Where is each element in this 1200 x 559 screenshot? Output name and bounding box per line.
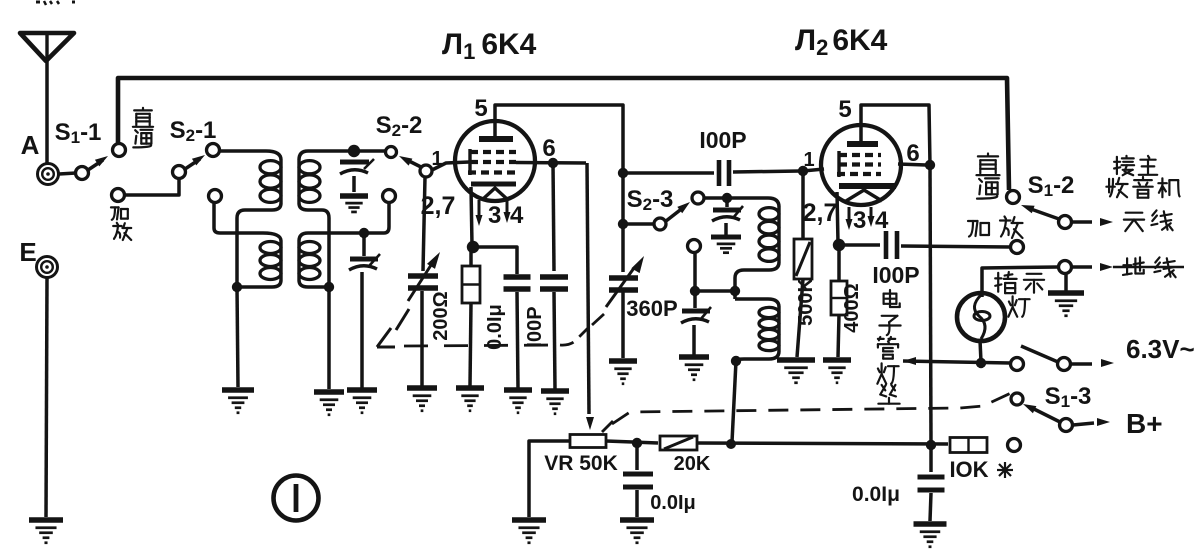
trimmer capacitor C2 — [349, 233, 380, 388]
svg-text:200Ω: 200Ω — [430, 291, 452, 340]
switch S2-1 — [173, 144, 220, 179]
figure number 1 — [274, 476, 319, 521]
label C5 100P — [524, 306, 546, 347]
terminal T2 secondary — [383, 190, 396, 203]
svg-text:0.0Iμ: 0.0Iμ — [484, 304, 506, 350]
ground C9 — [609, 361, 637, 384]
terminal T1 secondary top — [209, 190, 222, 203]
svg-text:S2-1: S2-1 — [170, 117, 217, 145]
capacitor C10 100P series — [839, 231, 1010, 259]
svg-text:3: 3 — [488, 202, 501, 229]
resistor R1 200ohm — [462, 247, 480, 386]
tube V2 pins 3 4 arrows — [846, 207, 875, 230]
wire padder terminal down — [693, 253, 697, 289]
wire T1 primary down — [235, 218, 239, 284]
switch S1-3 — [1011, 393, 1073, 432]
label S2-1 — [170, 117, 217, 145]
node T1 ground junction — [232, 282, 242, 292]
wire pin6 node to C5 — [553, 163, 554, 271]
tube V2 envelope — [821, 125, 901, 205]
tube V1 heater — [483, 188, 507, 199]
wire VR right — [606, 441, 658, 443]
svg-text:A: A — [21, 130, 40, 160]
label C4 0.01u — [484, 304, 506, 350]
svg-text:IOK: IOK — [949, 457, 988, 482]
label R2 500K — [795, 278, 817, 326]
label pin 6 of V2 — [906, 140, 919, 167]
capacitor C6 100P series — [623, 160, 800, 186]
tube V1 pins 3 4 arrows — [476, 200, 511, 226]
svg-text:5: 5 — [838, 96, 851, 123]
wire B+ arrow — [1073, 418, 1110, 426]
terminal A — [38, 164, 59, 185]
wire 6.3V arrow — [1071, 359, 1114, 367]
transformer T1 secondary — [241, 233, 281, 287]
svg-text:S1-2: S1-2 — [1028, 172, 1075, 200]
ground VR — [512, 520, 546, 543]
label tube V1 — [442, 28, 537, 64]
label S1-3 — [1045, 383, 1092, 411]
svg-text:3: 3 — [853, 207, 866, 234]
terminal jiafang left — [112, 189, 125, 202]
svg-text:I00P: I00P — [524, 306, 546, 347]
label shouyinji — [1106, 177, 1179, 198]
node T2 ground junction — [324, 282, 334, 292]
resistor R4 20K — [660, 436, 697, 450]
gang line switch — [612, 393, 1011, 424]
label zhitong left — [133, 108, 153, 147]
wire jiafang to S2-1 — [125, 179, 179, 195]
ground trimmer C7 — [711, 237, 741, 253]
terminal jiafang right — [1011, 241, 1024, 254]
wire T2 to ground — [327, 287, 331, 389]
ground R3 — [823, 360, 851, 383]
label A — [21, 130, 40, 160]
label pin 6 of V1 — [542, 135, 555, 162]
trimmer capacitor C1 — [340, 159, 374, 192]
transformer T3 secondary — [735, 299, 779, 361]
tube V2 heater — [846, 190, 882, 201]
trimmer capacitor C7 — [712, 198, 743, 235]
variable capacitor C9 360P — [606, 226, 644, 307]
ground C4 — [504, 390, 532, 413]
scan specks — [36, 1, 75, 5]
svg-text:0.0Iμ: 0.0Iμ — [852, 483, 900, 506]
wire V2 cathode down — [837, 192, 838, 243]
capacitor C11 0.01u — [623, 443, 653, 517]
label S2-2 — [376, 112, 423, 140]
svg-text:5: 5 — [474, 95, 487, 122]
node T3 bottom junction — [731, 356, 741, 366]
tube V2 plate — [847, 141, 878, 147]
lamp DS1 — [957, 293, 1005, 341]
svg-text:360P: 360P — [626, 296, 677, 321]
node V2 pin6 — [925, 160, 935, 170]
potentiometer VR 50K — [570, 435, 606, 448]
transformer T3 primary — [735, 198, 779, 278]
resistor R3 400ohm — [831, 245, 847, 357]
node lamp junction — [976, 358, 986, 368]
node 10K in — [926, 440, 936, 450]
svg-text:2,7: 2,7 — [421, 192, 456, 220]
label asterisk — [997, 462, 1013, 478]
wire filament 6.3V — [903, 357, 1010, 365]
svg-text:6.3V~: 6.3V~ — [1126, 334, 1195, 364]
label tube V2 — [795, 24, 888, 60]
wire antenna to A — [45, 61, 49, 163]
svg-text:2,7: 2,7 — [803, 199, 838, 227]
label zhitong right — [977, 154, 1000, 199]
wire T3 mid — [733, 278, 737, 299]
node plate V1 junction — [618, 168, 628, 178]
ground trimmer C1 — [340, 196, 368, 212]
wire T2 primary down — [327, 218, 331, 284]
svg-text:500K: 500K — [795, 278, 817, 326]
label dianziguan dengsi — [877, 290, 900, 404]
node T3 feed — [726, 439, 736, 449]
ground C11 — [620, 520, 654, 543]
wire padder node to T3 — [695, 289, 731, 293]
node trimmer C7 tap — [722, 193, 732, 203]
label pins 2,7 of V2 — [803, 199, 838, 227]
label pin 1 of V1 — [431, 148, 442, 170]
wire to V2 grid — [803, 169, 824, 171]
ground R1 — [456, 388, 484, 411]
transformer T2 primary — [299, 151, 329, 218]
wire V1 plate to node — [495, 105, 623, 171]
svg-text:I00P: I00P — [699, 127, 746, 153]
wire pin6 down to VR wiper — [586, 163, 594, 430]
label C12 0.01u — [852, 483, 900, 506]
wire T1 secondary top — [214, 203, 263, 233]
antenna — [20, 33, 74, 61]
svg-text:B+: B+ — [1126, 408, 1163, 439]
svg-text:S1-3: S1-3 — [1045, 383, 1092, 411]
transformer T2 secondary — [299, 233, 325, 287]
terminal E — [37, 257, 58, 278]
svg-text:S2-2: S2-2 — [376, 112, 423, 140]
tube V1 cathode — [471, 182, 516, 187]
wire V2 plate to bus — [861, 105, 930, 165]
node padder junction — [690, 286, 700, 296]
ground E — [29, 520, 63, 543]
node V1 cathode — [467, 241, 479, 253]
label B+ — [1126, 408, 1163, 439]
label jiafang left — [111, 207, 131, 240]
svg-text:1: 1 — [803, 149, 814, 171]
wire T3 bottom down — [732, 361, 736, 442]
label pin 1 of V2 — [803, 149, 814, 171]
wire dixian — [982, 267, 1058, 297]
svg-text:1: 1 — [431, 148, 442, 170]
svg-text:4: 4 — [510, 202, 524, 229]
label C9 360P — [626, 296, 677, 321]
wire node down to S2-3 — [621, 173, 625, 222]
gang line tuning — [377, 309, 604, 347]
svg-text:E: E — [19, 237, 36, 267]
switch S1-2 — [1007, 191, 1072, 229]
wire top bus — [118, 78, 1009, 190]
label pins 3 4 of V1 — [488, 202, 524, 229]
node V1 pin6 — [548, 158, 558, 168]
wire S2-2 to tube V1 grid — [432, 162, 469, 170]
label R4 20K — [674, 453, 711, 475]
switch S2-3 — [623, 192, 704, 230]
svg-text:S2-3: S2-3 — [627, 186, 674, 214]
svg-text:Л26K4: Л26K4 — [795, 24, 888, 60]
node V2 grid junction — [798, 166, 808, 176]
label C11 0.01u — [650, 492, 696, 514]
transformer T1 primary — [237, 151, 281, 218]
wire T2 secondary to terminal — [308, 203, 389, 233]
label S1-1 — [55, 119, 102, 147]
switch S1-1 — [76, 144, 126, 180]
label R3 400ohm — [841, 283, 863, 332]
ground dixian — [1048, 293, 1084, 316]
wire E down — [46, 278, 47, 517]
node trimmer C1 tap — [348, 145, 360, 157]
label S2-3 — [627, 186, 674, 214]
tube V2 grids — [837, 151, 881, 177]
ground T1 — [222, 390, 254, 413]
svg-text:0.0Iμ: 0.0Iμ — [650, 492, 696, 514]
wire V1 pin6 — [516, 161, 586, 165]
ground R2 — [777, 360, 815, 383]
label pin 5 of V1 — [474, 95, 487, 122]
terminal osc padder — [688, 240, 701, 253]
label dixian — [1123, 257, 1176, 277]
label R1 200ohm — [430, 291, 452, 340]
wire VR left to ground — [529, 441, 570, 517]
wire C9 to ground — [621, 292, 625, 358]
label C10 100P — [872, 262, 919, 288]
capacitor C5 100P — [540, 277, 568, 389]
tube V2 cathode — [839, 183, 896, 189]
wire T2 primary top to S2-2 — [308, 149, 385, 153]
node V2 cathode — [833, 239, 845, 251]
wire cathode to C4 — [473, 247, 517, 274]
wire lamp bottom — [980, 340, 981, 362]
tube V1 envelope — [455, 121, 535, 201]
label jiefang right — [968, 217, 1023, 239]
label S1-2 — [1028, 172, 1075, 200]
svg-text:Л16K4: Л16K4 — [442, 28, 537, 64]
label pins 2,7 of V1 — [421, 192, 456, 220]
wire C3 to ground — [420, 291, 424, 386]
resistor R5 10K — [950, 438, 987, 453]
tube V1 plate — [479, 136, 513, 142]
wiper tick VR — [602, 421, 613, 432]
resistor R2 500K — [794, 173, 812, 357]
label jie zhu — [1114, 156, 1157, 175]
wire B+ feed down — [930, 165, 931, 443]
node S2-3 arm — [618, 219, 628, 229]
label pin 5 of V2 — [838, 96, 851, 123]
wire dixian to ground — [1064, 274, 1068, 291]
label pins 3 4 of V2 — [853, 207, 889, 234]
switch blade 6.3V — [1021, 346, 1071, 371]
svg-text:VR 50K: VR 50K — [544, 452, 618, 475]
label C6 100P — [699, 127, 746, 153]
wire S2-2 to C3 — [423, 177, 425, 271]
wire dixian arrow — [1072, 263, 1184, 271]
ground trimmer C2 — [347, 390, 377, 413]
wire S2-3 to T3 — [704, 196, 744, 200]
wire V1 cathode down — [471, 187, 472, 245]
label VR 50K — [544, 452, 618, 475]
ground T2 — [314, 392, 344, 415]
ground C3 — [407, 388, 437, 411]
wire S1-2 to antenna out — [1072, 218, 1113, 226]
node T3 tap — [730, 286, 740, 296]
terminal S1 6.3V left — [1011, 358, 1024, 371]
svg-text:I00P: I00P — [872, 262, 919, 288]
wire V2 pin6 — [898, 164, 926, 165]
label tianxian — [1124, 210, 1173, 231]
tube V1 grids — [468, 149, 516, 175]
wire 20K to 10K — [697, 443, 948, 444]
svg-text:20K: 20K — [674, 453, 711, 475]
svg-text:400Ω: 400Ω — [841, 283, 863, 332]
capacitor C4 0.01u — [504, 277, 531, 388]
terminal dixian — [1059, 261, 1072, 274]
ground C5 — [541, 391, 569, 414]
svg-text:S1-1: S1-1 — [55, 119, 102, 147]
wire T1 to ground — [237, 287, 238, 387]
trimmer capacitor C8 — [681, 291, 711, 355]
wire A to S1-1 — [59, 173, 76, 174]
label 6.3V — [1126, 334, 1195, 364]
capacitor C12 0.01u — [918, 445, 945, 521]
node trimmer C2 tap — [359, 228, 369, 238]
ground trimmer C8 — [679, 357, 709, 380]
variable capacitor C3 — [408, 252, 440, 301]
label R5 10K — [949, 457, 988, 482]
ground C12 — [914, 524, 947, 547]
wire S2-1 to T1 — [220, 149, 266, 153]
node VR out — [632, 438, 642, 448]
label E — [19, 237, 36, 267]
label zhishi deng — [995, 272, 1044, 317]
switch S2-2 — [386, 147, 433, 178]
terminal 10K out — [1008, 439, 1021, 452]
svg-text:4: 4 — [875, 207, 889, 234]
